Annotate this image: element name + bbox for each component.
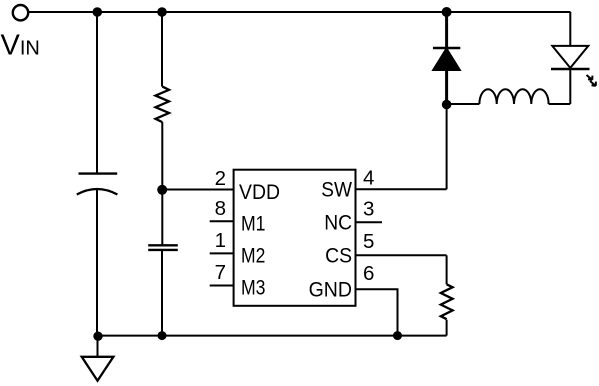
svg-text:7: 7	[215, 261, 226, 284]
svg-text:SW: SW	[321, 178, 352, 202]
svg-text:CS: CS	[325, 244, 352, 268]
svg-text:1: 1	[215, 229, 226, 252]
svg-text:8: 8	[215, 197, 226, 220]
svg-text:NC: NC	[324, 211, 352, 235]
svg-text:M2: M2	[241, 243, 265, 267]
svg-text:VDD: VDD	[239, 180, 280, 204]
svg-text:2: 2	[215, 167, 226, 190]
svg-text:4: 4	[363, 167, 374, 190]
svg-text:6: 6	[363, 262, 374, 285]
svg-text:5: 5	[363, 230, 374, 253]
svg-text:M1: M1	[241, 212, 266, 236]
svg-text:M3: M3	[241, 276, 266, 300]
svg-text:VIN: VIN	[1, 30, 40, 62]
svg-text:3: 3	[363, 198, 374, 221]
svg-text:GND: GND	[309, 277, 352, 301]
